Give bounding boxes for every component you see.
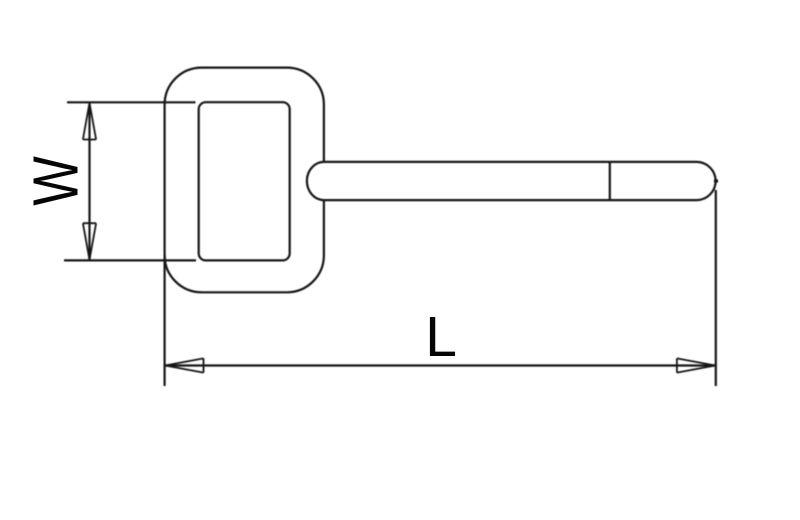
svg-text:L: L xyxy=(425,305,457,369)
svg-text:W: W xyxy=(21,156,92,206)
dimension W extension line bottom xyxy=(64,259,196,261)
label W xyxy=(21,156,92,206)
dimension W line xyxy=(88,102,90,260)
dimension W arrow up xyxy=(83,103,96,140)
dimension W extension line top xyxy=(67,101,196,103)
strap parting line xyxy=(609,162,611,200)
label L xyxy=(425,305,457,369)
strap tip point xyxy=(714,179,718,183)
dimension W arrow down xyxy=(83,223,96,260)
dimension L extension line left xyxy=(164,255,166,386)
dimension L extension line right xyxy=(715,190,717,386)
dimension L arrow right xyxy=(677,358,715,372)
dimension L arrow left xyxy=(165,358,203,372)
head slot xyxy=(199,102,290,260)
dimension L line xyxy=(165,364,716,366)
strap outline xyxy=(307,162,716,200)
head outline xyxy=(165,68,324,293)
